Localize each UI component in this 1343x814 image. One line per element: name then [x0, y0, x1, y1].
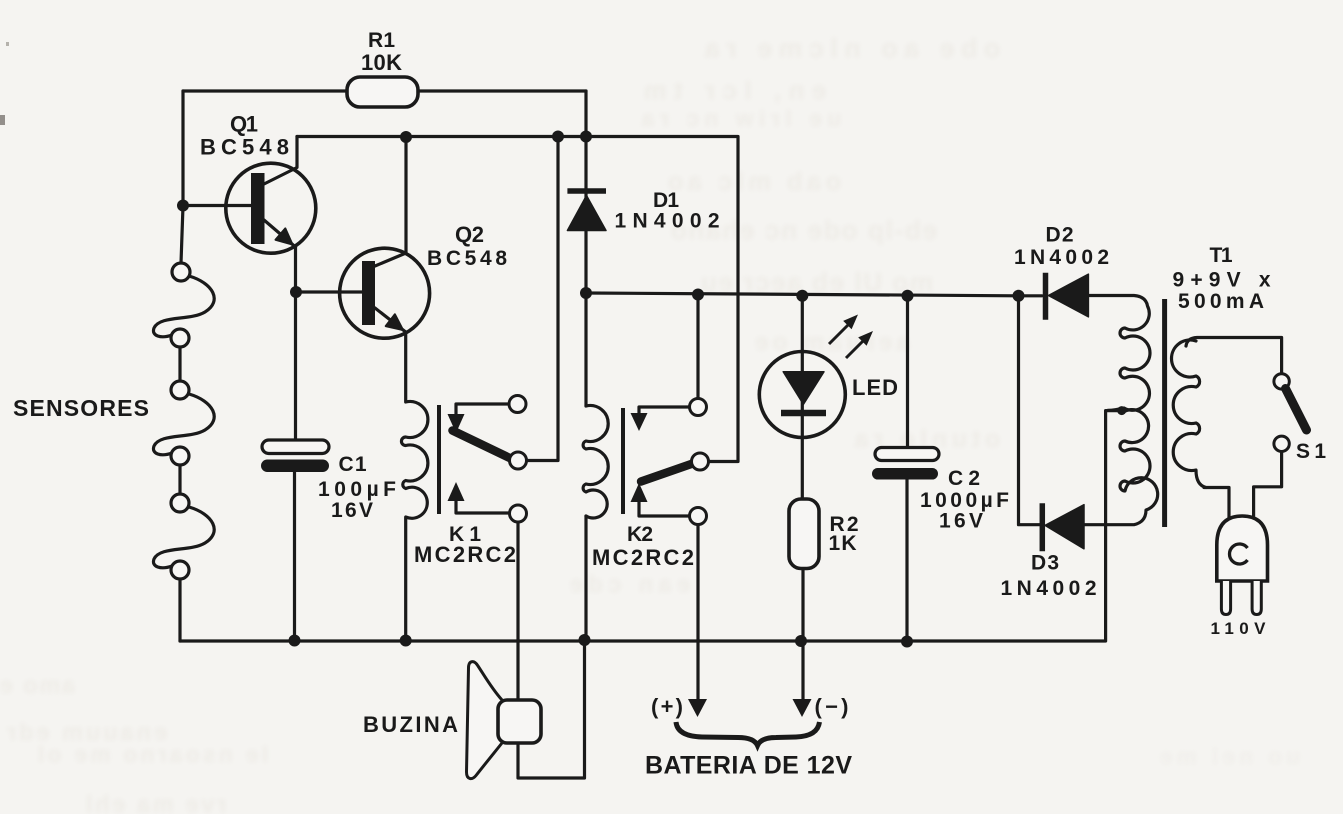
- scan specks: [0, 115, 5, 125]
- wire D2 anode to transformer secondary top + upper secondary coil T1: [1088, 296, 1150, 411]
- capacitor C1 top plate: [262, 440, 329, 454]
- wire rail 3 to D2: [1019, 294, 1043, 297]
- svg-text:T1: T1: [1210, 244, 1233, 267]
- svg-text:D2: D2: [1046, 223, 1074, 246]
- svg-text:MC2RC2: MC2RC2: [414, 542, 516, 567]
- lower secondary coil T1 to D3 anode: [1084, 410, 1158, 525]
- svg-text:BATERIA DE 12V: BATERIA DE 12V: [645, 752, 852, 780]
- wire rail 2 (Vcc bus to K2 common contact): [297, 137, 738, 462]
- svg-text:MC2RC2: MC2RC2: [592, 545, 694, 570]
- wire D2-D3 cathode link and D3 lead: [1019, 296, 1041, 525]
- relay K2 actuation up arrow: [631, 483, 648, 502]
- wire K1 lower arrow link: [456, 498, 510, 513]
- wire Q2 emitter to K1 coil and coil K1 to bottom rail: [401, 332, 427, 641]
- relay K2 middle contact: [692, 453, 709, 470]
- wire Q1 emitter down through C1 to bottom rail: [295, 247, 296, 641]
- wire K1 armature top link: [456, 404, 509, 419]
- plug 110V body: [1217, 516, 1268, 581]
- capacitor C2 bottom plate: [872, 468, 938, 480]
- wire S1 bottom to plug right prong: [1254, 452, 1282, 522]
- wire sensor chain bottom: [178, 579, 181, 641]
- svg-text:BUZINA: BUZINA: [363, 712, 458, 737]
- diode D2 triangle: [1048, 274, 1088, 317]
- transistor Q2 circle: [340, 248, 430, 338]
- transistor Q1 base bar: [251, 173, 265, 244]
- relay K2 armature bar: [641, 462, 697, 482]
- svg-text:C1: C1: [339, 453, 367, 476]
- switch S1 bar: [1286, 389, 1307, 431]
- transformer T1 core: [1162, 299, 1167, 527]
- battery brace: [676, 722, 820, 746]
- wire K2 top contact up to rail 3: [696, 295, 699, 399]
- plug right prong: [1252, 581, 1261, 615]
- LED circle: [759, 352, 845, 438]
- speaker BUZINA driver: [498, 700, 541, 743]
- wire K1 NC contact down to speaker: [516, 522, 519, 700]
- wire D1 branch: top rail right corner down through D1, K2 coil, to bottom rail: [584, 91, 587, 641]
- wire sensor link 2-3: [178, 347, 181, 381]
- relay K2 top contact: [690, 399, 707, 416]
- relay K2 core bar: [621, 408, 625, 514]
- wire Q1 base lead: [183, 204, 251, 207]
- transformer T1 center tap dot: [1117, 406, 1126, 415]
- capacitor C1 bottom plate: [261, 460, 329, 473]
- diode D1 triangle: [567, 196, 606, 231]
- battery minus arrowhead: [793, 699, 812, 717]
- LED light arrow 1: [829, 322, 851, 344]
- wire left vertical (top rail to Q1 base to sensor chain): [181, 91, 183, 263]
- svg-text:R1: R1: [368, 29, 395, 52]
- svg-text:1K: 1K: [829, 532, 857, 555]
- relay K2 bottom contact: [690, 508, 707, 525]
- svg-text:D3: D3: [1031, 552, 1059, 575]
- wire K2 lower arrow link: [639, 499, 690, 516]
- sensor chain contact circles: [172, 263, 190, 281]
- relay K1 middle contact: [510, 452, 527, 469]
- svg-text:LED: LED: [852, 375, 898, 400]
- wire Q2 base lead: [296, 290, 363, 293]
- svg-text:amo e: amo e: [0, 672, 75, 698]
- svg-text:K2: K2: [627, 523, 653, 546]
- primary coil T1: [1172, 340, 1207, 488]
- svg-text:SENSORES: SENSORES: [13, 395, 149, 421]
- svg-text:rve ma ehl: rve ma ehl: [86, 791, 226, 814]
- svg-text:uo nel me: uo nel me: [1160, 744, 1300, 769]
- wire Q2 collector up to rail 2: [375, 137, 406, 266]
- svg-text:110V: 110V: [1211, 619, 1267, 638]
- transistor Q2 emitter arrowhead: [386, 314, 403, 330]
- plug left prong: [1221, 581, 1230, 615]
- coil K2: [583, 406, 608, 519]
- relay K1 core bar: [437, 405, 441, 514]
- relay K2 armature down arrow: [631, 413, 648, 431]
- LED cathode bar: [781, 410, 826, 417]
- relay K1 armature bar: [453, 431, 517, 462]
- wire K2 bottom contact down to battery plus: [696, 525, 699, 701]
- wire top rail: [183, 89, 586, 92]
- relay K1 armature down arrow: [448, 414, 465, 433]
- wire sensor link 4-5: [178, 465, 181, 494]
- switch S1 top contact: [1274, 374, 1289, 389]
- svg-text:16V: 16V: [939, 510, 983, 533]
- wire speaker return to bottom rail: [518, 641, 585, 778]
- svg-text:oab mlc ao: oab mlc ao: [668, 168, 841, 196]
- capacitor C2 top plate: [875, 448, 939, 461]
- switch S1 bottom contact: [1274, 436, 1289, 451]
- wire Q2 emitter: [375, 308, 406, 332]
- wire Q1 emitter: [264, 220, 296, 247]
- relay K1 top contact: [509, 396, 526, 413]
- plug inner C mark: [1230, 544, 1248, 564]
- transistor Q1 circle: [226, 163, 316, 253]
- diode D1 cathode bar: [567, 188, 606, 194]
- svg-text:10K: 10K: [361, 50, 402, 75]
- diode D3 triangle: [1045, 505, 1084, 549]
- resistor R2 1K body: [789, 499, 819, 569]
- wire rail 3 (positive 12V bus): [586, 293, 1019, 296]
- wire LED branch down through LED and R2 to battery minus: [801, 296, 805, 699]
- wire K1 NO contact to rail 2: [527, 137, 559, 461]
- diode D3 cathode bar: [1040, 503, 1046, 551]
- svg-text:BC548: BC548: [427, 247, 507, 270]
- relay K1 bottom contact: [510, 505, 527, 522]
- diode D2 cathode bar: [1043, 273, 1049, 320]
- svg-text:(+): (+): [651, 694, 683, 719]
- wire bottom ground rail: [180, 411, 1122, 641]
- transistor Q2 base bar: [362, 261, 375, 325]
- wire sensor link 3-4: [153, 394, 214, 455]
- wire K2 armature top link: [639, 407, 690, 419]
- LED triangle: [783, 372, 824, 405]
- wire primary bottom to plug left prong: [1204, 488, 1229, 522]
- wire T1 primary top to S1: [1186, 338, 1282, 374]
- wire sensor link 1-2: [153, 276, 214, 337]
- svg-text:16V: 16V: [331, 499, 373, 522]
- transistor Q1 emitter arrowhead: [276, 228, 293, 244]
- wire C2 branch: [905, 296, 909, 642]
- svg-text:(−): (−): [815, 694, 849, 719]
- resistor R1 10K body: [347, 77, 418, 107]
- svg-text:Q2: Q2: [455, 222, 484, 247]
- speaker BUZINA cone: [467, 662, 503, 779]
- battery plus arrowhead: [688, 699, 707, 717]
- svg-text:Q1: Q1: [230, 112, 258, 137]
- wire sensor link 5-6: [153, 507, 214, 568]
- LED light arrow 2: [846, 338, 866, 358]
- relay K1 actuation up arrow: [448, 482, 465, 501]
- wire Q1 collector up to rail 2: [264, 137, 297, 185]
